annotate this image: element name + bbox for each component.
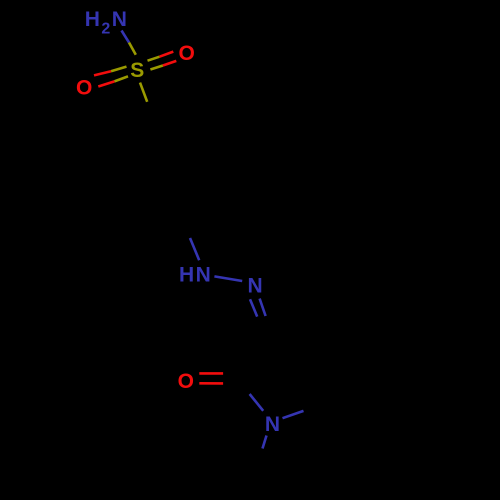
wire C(aryl)-NH bond, visible N half <box>190 238 199 260</box>
svg-text:N: N <box>112 8 127 31</box>
svg-text:N: N <box>196 264 211 287</box>
svg-text:N: N <box>265 413 280 436</box>
svg-text:S: S <box>130 59 144 82</box>
wire S-C(aryl) bond, visible S half <box>140 83 147 102</box>
wire C2-N1 bond, visible N half <box>250 394 264 411</box>
wire N1-C7a bond, visible N half <box>283 411 304 418</box>
wire S=O2 double bond upper line, S half <box>111 67 127 72</box>
wire S=O2 double bond upper line, O half <box>94 71 111 75</box>
svg-text:O: O <box>76 76 92 99</box>
wire S=O1 double bond upper line, O half <box>160 52 174 57</box>
wire S=O1 double bond lower line, S half <box>150 66 163 70</box>
svg-text:H: H <box>179 264 194 287</box>
wire N-S bond (blue half near amide N) <box>122 31 130 43</box>
svg-text:2: 2 <box>101 21 110 38</box>
node HN hydrazine label <box>179 264 211 287</box>
wire C2=O double bond lower line, O half <box>199 382 223 385</box>
wire N1-CH3 bond, visible N half <box>263 436 267 449</box>
wire N-N single bond <box>214 276 242 281</box>
wire C2=O double bond upper line, O half <box>199 372 223 375</box>
svg-text:O: O <box>178 370 194 393</box>
wire N=C3 double bond line 1, N half <box>250 299 257 316</box>
svg-text:H: H <box>85 8 100 31</box>
svg-text:N: N <box>248 275 263 298</box>
wire S=O1 double bond upper line, S half <box>148 57 160 61</box>
wire N-S bond (sulfur half) <box>129 43 136 55</box>
wire S=O2 double bond lower line, S half <box>114 76 128 81</box>
wire N=C3 double bond line 2, N half <box>260 299 266 316</box>
wire S=O2 double bond lower line, O half <box>98 81 114 86</box>
node H2N amide label <box>85 8 127 38</box>
wire S=O1 double bond lower line, O half <box>163 61 176 66</box>
svg-text:O: O <box>179 42 195 65</box>
